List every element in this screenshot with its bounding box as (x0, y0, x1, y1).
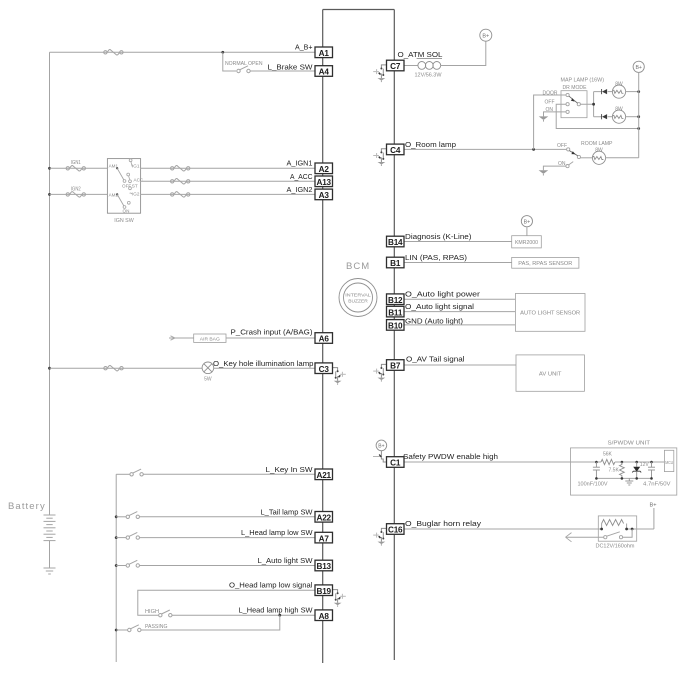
svg-text:INTERVAL: INTERVAL (345, 293, 371, 298)
ground symbol at B19 (right side) (333, 590, 346, 607)
svg-text:12V/56.3W: 12V/56.3W (415, 73, 442, 79)
svg-text:C3: C3 (319, 365, 330, 374)
node: tail lamp junction (115, 515, 118, 518)
pin A21 (315, 469, 333, 480)
pin A4 (315, 66, 333, 77)
solenoid O_ATM SOL coil (417, 59, 442, 70)
DR MODE selector arm (569, 96, 578, 103)
relay contact switch (604, 536, 607, 539)
pin B13 (315, 560, 333, 571)
wire: C16 to relay (404, 528, 598, 530)
svg-text:O_Auto light power: O_Auto light power (405, 289, 480, 298)
wire: lower switch bus (115, 474, 117, 662)
svg-text:AUTO LIGHT SENSOR: AUTO LIGHT SENSOR (520, 311, 580, 317)
node: res2 junction (621, 461, 624, 464)
svg-text:HIGH: HIGH (145, 609, 159, 615)
fuse F1 (A_B+) (104, 50, 123, 56)
wire: OFF contact loop under box (556, 104, 639, 128)
svg-text:A1: A1 (319, 49, 330, 58)
wire: coil to B+ side (627, 528, 654, 530)
switch: tail lamp SW (116, 516, 126, 518)
svg-text:O_AV Tail signal: O_AV Tail signal (406, 354, 465, 363)
pin C7 (387, 60, 405, 71)
wire: A_ACC out (141, 180, 315, 182)
svg-text:PAS, RPAS SENSOR: PAS, RPAS SENSOR (518, 261, 572, 267)
fuse keyhole (104, 365, 123, 371)
wire: B12 to sensor (404, 298, 515, 300)
ground symbol at C3 (right side) (333, 368, 346, 385)
pin A3 (315, 189, 333, 200)
pin B11 (387, 306, 405, 317)
wire: lamp to C3 (214, 367, 315, 369)
B+ supply circle (ATM SOL) (480, 29, 492, 41)
box KMR2000 (512, 236, 542, 248)
relay coil (598, 524, 626, 530)
wire: B14 to KMR2000 (404, 241, 512, 243)
svg-text:IGN1: IGN1 (71, 160, 81, 166)
svg-text:AV UNIT: AV UNIT (539, 372, 562, 378)
svg-text:A_IGN1: A_IGN1 (287, 159, 313, 168)
svg-text:A8: A8 (319, 612, 330, 621)
svg-text:A_B+: A_B+ (295, 43, 313, 52)
wire: ON contact to ground (543, 166, 566, 170)
svg-text:O_Room lamp: O_Room lamp (405, 140, 456, 149)
wire: head lamp low signal loop from B19 (138, 590, 315, 615)
node: brake branch junction (221, 51, 224, 54)
wire: contact out with arrow (566, 536, 604, 538)
svg-text:MAP LAMP (16W): MAP LAMP (16W) (561, 78, 605, 84)
svg-text:4.7nF/50V: 4.7nF/50V (643, 481, 671, 487)
fuse IGN1 (66, 166, 85, 172)
svg-text:B19: B19 (316, 587, 331, 596)
wire: IGN2 feed (50, 193, 108, 195)
box MCU (664, 450, 673, 471)
pin B14 (387, 236, 405, 247)
svg-text:B+: B+ (482, 34, 489, 40)
wire: B1 to PAS RPAS sensor (404, 262, 512, 264)
box AUTO LIGHT SENSOR (515, 294, 585, 332)
relay box (598, 516, 636, 541)
room lamp selector arm (569, 151, 577, 156)
ignition switch IGN SW (107, 159, 143, 214)
wire: map lamp 2 to B+ rail (626, 116, 639, 118)
svg-text:NORMAL OPEN: NORMAL OPEN (225, 61, 263, 67)
wire: crash input left (175, 337, 194, 339)
svg-text:AIR BAG: AIR BAG (200, 336, 220, 342)
wire: IGN1 feed (50, 167, 108, 169)
pin A6 (315, 333, 333, 344)
switch: brake switch (NORMAL OPEN) (237, 66, 250, 73)
svg-text:Safety PWDW enable high: Safety PWDW enable high (403, 452, 498, 461)
svg-text:OFF: OFF (122, 184, 131, 189)
wire: brake switch branch (223, 52, 236, 71)
node: lamp branch junction (592, 103, 595, 106)
capacitor C_1 100nF/100V (593, 462, 600, 478)
switch: head lamp low SW (116, 537, 126, 539)
node: bottom rail junctions (595, 477, 598, 480)
wire: after resistor to MCU (615, 461, 664, 463)
node: OFF loop meets B+ rail (637, 127, 640, 130)
wire: brake switch to A4 (250, 70, 315, 72)
wire: A_IGN1 out (141, 167, 315, 169)
svg-text:B+: B+ (635, 65, 642, 71)
B+ supply circle (C1) (376, 440, 387, 451)
svg-text:A4: A4 (319, 68, 330, 77)
svg-text:B+: B+ (650, 502, 657, 508)
svg-text:B+: B+ (378, 444, 384, 450)
pin A13 (315, 176, 333, 187)
wire: DOOR contact to door line (534, 95, 566, 149)
diode D1 (map lamp 1) (602, 89, 612, 94)
pin C4 (387, 144, 405, 155)
wire: B10 to sensor (404, 324, 515, 326)
svg-text:O_ATM SOL: O_ATM SOL (398, 50, 444, 59)
ground: unit internal ground (625, 478, 633, 485)
wire: key hole illumination feed (50, 367, 203, 369)
pin B10 (387, 320, 405, 331)
svg-text:B7: B7 (390, 362, 401, 371)
lamp: key hole illumination lamp (202, 362, 214, 374)
switch: PASSING (116, 629, 127, 631)
node: passing junction on bus (115, 629, 118, 632)
wire: B+ into C1 (381, 451, 386, 462)
svg-text:A13: A13 (316, 178, 331, 187)
ground symbol at C16 (373, 528, 386, 545)
pin B7 (387, 360, 405, 371)
pin A7 (315, 532, 333, 543)
pin A8 (315, 610, 333, 621)
pin C16 (387, 524, 405, 535)
svg-text:IGN SW: IGN SW (114, 218, 134, 224)
ground symbol at B7 (373, 364, 386, 381)
wire: battery feed vertical (49, 52, 51, 514)
B+ supply circle (map/room lamp) (633, 61, 644, 72)
svg-text:O_Head lamp low signal: O_Head lamp low signal (229, 581, 313, 590)
wire: B+ down to relay (653, 508, 655, 529)
pin B19 (315, 585, 333, 596)
node: cap1 junction (595, 461, 598, 464)
wire: contact to B+ vertical (623, 529, 633, 537)
svg-text:L_Head lamp high SW: L_Head lamp high SW (239, 606, 314, 615)
fuse F_IG2 (171, 192, 190, 198)
capacitor C_2 4.7nF/50V (648, 462, 655, 478)
node: keyhole branch junction (48, 367, 51, 370)
wire: C7 to solenoid (404, 65, 418, 67)
svg-text:OFF: OFF (545, 99, 555, 105)
pin A2 (315, 163, 333, 174)
svg-text:Diagnosis (K-Line): Diagnosis (K-Line) (405, 232, 472, 241)
svg-text:L_Head lamp low SW: L_Head lamp low SW (241, 528, 313, 537)
wire: C4 to room lamp switch (404, 148, 567, 150)
svg-text:ON: ON (123, 208, 130, 213)
svg-text:O_Key hole illumination lamp: O_Key hole illumination lamp (213, 359, 314, 368)
svg-text:12V: 12V (640, 462, 650, 468)
svg-text:LIN (PAS, RPAS): LIN (PAS, RPAS) (405, 253, 467, 262)
node: cap2 junction (650, 461, 653, 464)
ground symbol at C7 (373, 65, 386, 82)
wire: map lamp 1 to B+ rail (626, 91, 639, 93)
svg-text:B11: B11 (388, 308, 403, 317)
svg-text:C1: C1 (390, 459, 401, 468)
svg-text:C4: C4 (390, 146, 401, 155)
svg-text:GND (Auto light): GND (Auto light) (405, 317, 463, 326)
wire: B11 to sensor (404, 311, 515, 313)
svg-text:MCU: MCU (665, 460, 673, 465)
node: IGN2 branch junction (48, 193, 51, 196)
wire: A_B+ feed horizontal (50, 51, 316, 53)
node: B+ rail junction 1 (637, 90, 640, 93)
DR MODE switch contacts (566, 93, 580, 113)
svg-text:IG2: IG2 (132, 191, 140, 196)
wire: ON contact to ground (544, 112, 567, 117)
svg-text:ROOM LAMP: ROOM LAMP (581, 141, 613, 147)
wire: B+ to KMR2000 (526, 227, 528, 236)
svg-text:B13: B13 (316, 562, 331, 571)
switch: auto light SW (116, 565, 126, 567)
wire: BCM top link (323, 9, 395, 11)
svg-text:A3: A3 (319, 191, 330, 200)
svg-text:KMR2000: KMR2000 (515, 240, 538, 246)
fuse F_ACC (171, 179, 190, 185)
svg-text:L_Key In SW: L_Key In SW (266, 465, 314, 474)
fuse IGN2 (66, 192, 85, 198)
svg-text:O_Buglar horn relay: O_Buglar horn relay (405, 519, 481, 528)
switch box DR MODE (561, 91, 587, 118)
svg-text:B1: B1 (390, 259, 401, 268)
pin A1 (315, 47, 333, 58)
pin B12 (387, 294, 405, 305)
box AIR BAG (194, 334, 226, 342)
pin B1 (387, 257, 405, 268)
wire: selector common to lamp branches (580, 92, 601, 117)
airbag arrow input (169, 336, 175, 340)
svg-text:7.5K: 7.5K (609, 468, 620, 474)
node: relay coil junctions (600, 528, 603, 531)
ground: battery ground (44, 568, 56, 574)
B+ supply circle (KMR2000) (521, 216, 532, 227)
wire: A_IGN2 out (141, 193, 315, 195)
wire: room lamp to B+ rail (606, 157, 639, 159)
svg-text:BCM: BCM (346, 261, 370, 272)
box PAS RPAS SENSOR (512, 257, 579, 268)
ground symbol at C4 (373, 149, 386, 166)
svg-text:BUZZER: BUZZER (348, 299, 368, 304)
svg-text:A22: A22 (316, 514, 331, 523)
wire: B7 to AV unit (404, 364, 516, 366)
svg-text:B14: B14 (388, 238, 403, 247)
svg-text:B+: B+ (524, 220, 531, 226)
wire: switch to room lamp (581, 157, 593, 159)
wire: battery to ground (49, 541, 51, 568)
arrow tick at C1 B+ (373, 456, 380, 458)
node: zener junction (635, 461, 638, 464)
pin C1 (387, 457, 405, 468)
wire: unit input rail (571, 461, 602, 463)
svg-text:A7: A7 (319, 534, 330, 543)
svg-text:S/PWDW UNIT: S/PWDW UNIT (608, 441, 651, 447)
svg-text:L_Auto light SW: L_Auto light SW (258, 556, 314, 565)
wire: crash input to A6 (226, 337, 315, 339)
svg-text:DC12V/160ohm: DC12V/160ohm (596, 544, 635, 550)
node: passing joins high wire (278, 614, 281, 617)
svg-text:C16: C16 (388, 526, 403, 535)
fuse F_IG1 (171, 166, 190, 172)
buzzer: interval buzzer circle (339, 279, 377, 317)
svg-text:B12: B12 (388, 296, 403, 305)
svg-text:DR MODE: DR MODE (563, 85, 588, 91)
svg-text:L_Tail lamp SW: L_Tail lamp SW (261, 507, 314, 516)
svg-text:B10: B10 (388, 322, 403, 331)
wire: solenoid to B+ (441, 41, 486, 65)
wire: passing branch (141, 615, 280, 630)
svg-text:ST: ST (132, 184, 138, 189)
svg-text:A_IGN2: A_IGN2 (287, 185, 313, 194)
wire: unit bottom rail (596, 477, 651, 479)
svg-text:P_Crash input (A/BAG): P_Crash input (A/BAG) (231, 328, 313, 337)
diode D2 (map lamp 2) (602, 114, 612, 119)
svg-text:IGN2: IGN2 (71, 186, 81, 192)
node: B+ rail junction 2 (637, 115, 640, 118)
svg-text:OFF: OFF (557, 143, 567, 149)
svg-text:5W: 5W (204, 377, 212, 383)
svg-text:PASSING: PASSING (145, 624, 168, 630)
ground: room lamp ON ground (539, 170, 549, 175)
svg-text:A6: A6 (319, 335, 330, 344)
pin C3 (315, 363, 333, 374)
node: head low junction (115, 536, 118, 539)
wire: B+ rail vertical (638, 72, 640, 157)
svg-text:Battery: Battery (8, 501, 46, 512)
ground: map lamp ON ground (539, 116, 549, 121)
wire: BCM left bus (322, 10, 324, 664)
svg-text:100nF/100V: 100nF/100V (578, 481, 609, 487)
node: IGN1 branch junction (48, 167, 51, 170)
svg-text:IG1: IG1 (132, 163, 140, 168)
svg-text:A_ACC: A_ACC (290, 172, 313, 181)
pin A22 (315, 512, 333, 523)
svg-text:56K: 56K (603, 452, 613, 458)
svg-text:A2: A2 (319, 165, 330, 174)
svg-text:L_Brake SW: L_Brake SW (268, 62, 314, 71)
svg-text:A21: A21 (316, 471, 331, 480)
box AV UNIT (516, 355, 584, 391)
wire: BCM right bus (393, 10, 395, 661)
node: auto light junction (115, 564, 118, 567)
switch: key in SW (116, 473, 130, 475)
svg-text:O_Auto light signal: O_Auto light signal (405, 302, 474, 311)
wire: C1 to S/PWDW unit (404, 461, 571, 463)
svg-text:C7: C7 (390, 62, 401, 71)
node: door-line junction (532, 148, 535, 151)
svg-text:8W: 8W (595, 148, 603, 154)
